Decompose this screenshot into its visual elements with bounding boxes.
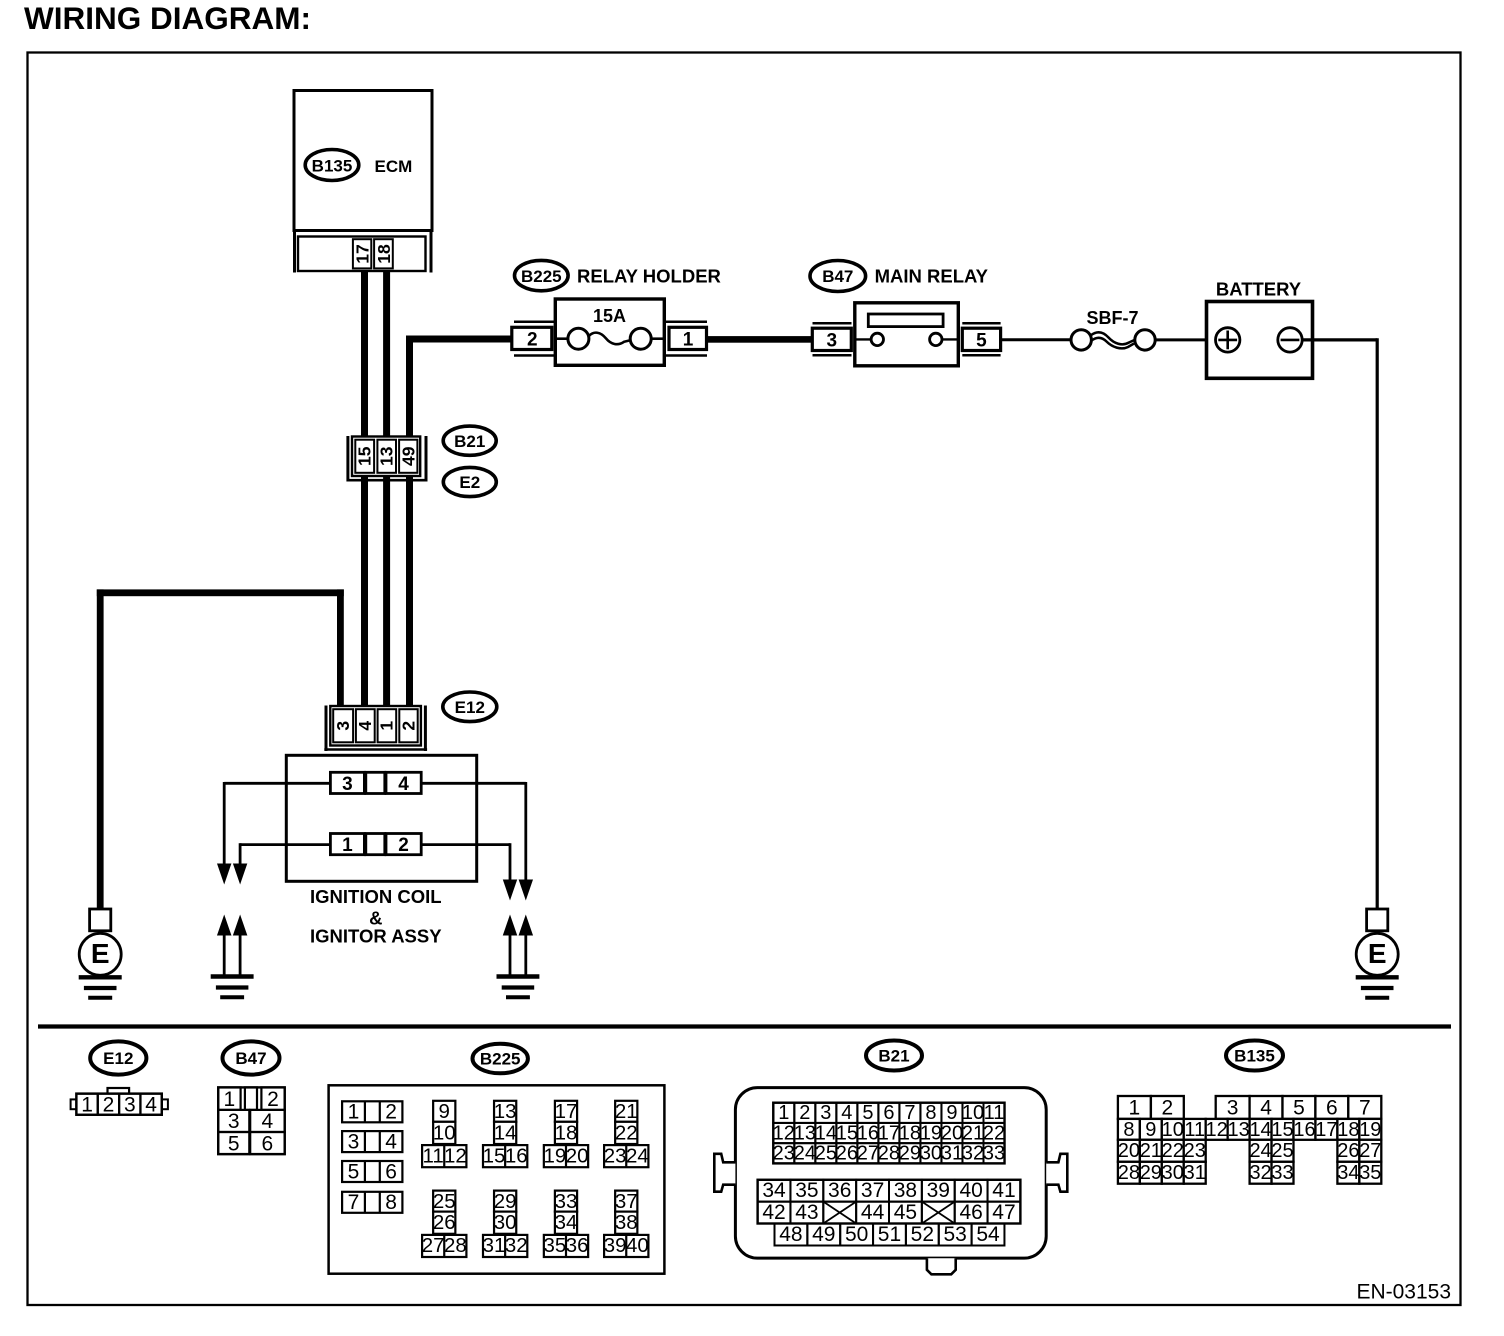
label IGNITION COIL & IGNITOR ASSY — [310, 886, 442, 947]
oval label E12 — [443, 692, 497, 722]
svg-text:30: 30 — [1162, 1162, 1184, 1184]
svg-text:48: 48 — [779, 1223, 802, 1246]
svg-text:34: 34 — [555, 1211, 578, 1234]
svg-text:25: 25 — [433, 1190, 456, 1213]
svg-text:15: 15 — [1271, 1119, 1293, 1141]
svg-text:1: 1 — [342, 835, 353, 856]
right spark gap down arrows — [503, 880, 533, 901]
connector E12 pinout — [71, 1088, 168, 1116]
svg-text:17: 17 — [353, 244, 373, 263]
connector B135 pinout — [1118, 1096, 1382, 1184]
svg-text:5: 5 — [862, 1102, 873, 1124]
left spark gap down arrows — [217, 864, 247, 885]
relay holder pin 1 — [664, 322, 707, 356]
svg-text:2: 2 — [103, 1093, 115, 1116]
svg-text:28: 28 — [878, 1143, 900, 1165]
svg-text:51: 51 — [878, 1223, 901, 1246]
svg-text:3: 3 — [827, 331, 838, 352]
wire battery minus to right ground — [1302, 338, 1377, 910]
svg-text:11: 11 — [423, 1144, 444, 1167]
svg-text:37: 37 — [615, 1190, 638, 1213]
svg-text:19: 19 — [1359, 1119, 1381, 1141]
svg-text:40: 40 — [959, 1179, 982, 1202]
svg-text:WIRING DIAGRAM:: WIRING DIAGRAM: — [24, 0, 311, 36]
connector E12 (pins 3 4 1 2) — [324, 706, 427, 752]
svg-text:2: 2 — [398, 721, 418, 731]
svg-text:4: 4 — [398, 774, 409, 795]
svg-text:1: 1 — [683, 330, 694, 351]
svg-text:3: 3 — [124, 1093, 136, 1116]
svg-text:IGNITOR ASSY: IGNITOR ASSY — [310, 926, 442, 947]
svg-text:2: 2 — [385, 1101, 397, 1124]
svg-text:15: 15 — [355, 446, 375, 466]
svg-text:15A: 15A — [593, 306, 626, 326]
svg-text:32: 32 — [505, 1234, 528, 1257]
svg-text:27: 27 — [1359, 1140, 1381, 1162]
svg-text:6: 6 — [262, 1132, 274, 1155]
svg-text:30: 30 — [494, 1211, 517, 1234]
battery — [1207, 279, 1313, 379]
svg-text:28: 28 — [1118, 1162, 1140, 1184]
oval label B21 — [443, 426, 496, 455]
svg-text:8: 8 — [1123, 1119, 1134, 1141]
svg-text:11: 11 — [1184, 1119, 1205, 1141]
svg-text:4: 4 — [355, 721, 375, 731]
svg-text:19: 19 — [920, 1122, 942, 1144]
svg-text:3: 3 — [333, 721, 353, 731]
svg-text:21: 21 — [962, 1122, 984, 1144]
svg-text:38: 38 — [894, 1179, 917, 1202]
svg-text:B225: B225 — [480, 1050, 521, 1069]
wire SBF-7 to battery plus — [1155, 338, 1216, 341]
svg-text:21: 21 — [1140, 1140, 1162, 1162]
svg-text:BATTERY: BATTERY — [1216, 279, 1302, 300]
svg-text:18: 18 — [1337, 1119, 1359, 1141]
svg-text:3: 3 — [342, 774, 353, 795]
oval label E2 — [443, 467, 496, 496]
svg-text:B225: B225 — [521, 267, 562, 286]
svg-text:7: 7 — [904, 1102, 915, 1124]
wire ECM pin17 to B21 pin15 to E12 pin4 — [361, 272, 368, 708]
wire left ground run to E12 pin3 — [97, 589, 344, 909]
left spark gap up arrows — [217, 915, 247, 977]
right spark gap up arrows — [503, 915, 533, 977]
svg-text:13: 13 — [1228, 1119, 1250, 1141]
svg-text:18: 18 — [899, 1122, 921, 1144]
svg-text:26: 26 — [836, 1143, 858, 1165]
svg-text:12: 12 — [444, 1144, 467, 1167]
svg-text:7: 7 — [1359, 1096, 1371, 1119]
left ground E — [79, 909, 122, 998]
svg-text:E12: E12 — [455, 698, 485, 717]
main relay pin 5 — [962, 323, 1000, 355]
svg-text:23: 23 — [773, 1143, 795, 1165]
svg-text:2: 2 — [799, 1102, 810, 1124]
svg-text:39: 39 — [604, 1234, 627, 1257]
oval label B47 (pinout) — [223, 1041, 280, 1074]
svg-text:1: 1 — [224, 1088, 236, 1111]
wire relay holder pin1 to main relay pin3 — [707, 336, 813, 343]
svg-text:9: 9 — [946, 1102, 957, 1124]
svg-text:33: 33 — [555, 1190, 578, 1213]
svg-text:21: 21 — [615, 1100, 638, 1123]
wire ignition pin2 to right spark output — [421, 843, 510, 880]
svg-text:5: 5 — [976, 331, 987, 352]
svg-text:46: 46 — [959, 1201, 982, 1224]
svg-text:14: 14 — [494, 1121, 517, 1144]
svg-text:17: 17 — [878, 1122, 900, 1144]
svg-text:6: 6 — [883, 1102, 894, 1124]
oval label E12 (pinout) — [90, 1041, 146, 1074]
svg-text:25: 25 — [1271, 1140, 1293, 1162]
svg-text:24: 24 — [626, 1144, 649, 1167]
svg-text:31: 31 — [483, 1234, 506, 1257]
B21 pin grid 34-54 — [758, 1179, 1021, 1246]
svg-text:13: 13 — [794, 1122, 816, 1144]
svg-text:2: 2 — [398, 835, 409, 856]
svg-text:14: 14 — [1249, 1119, 1271, 1141]
wire ignition pin1 to left spark output — [240, 843, 330, 864]
wire relay holder pin2 to B21 pin49 to E12 pin2 — [406, 336, 514, 708]
svg-text:22: 22 — [1162, 1140, 1184, 1162]
svg-text:31: 31 — [941, 1143, 963, 1165]
svg-text:3: 3 — [820, 1102, 831, 1124]
svg-text:28: 28 — [444, 1234, 467, 1257]
svg-text:41: 41 — [992, 1179, 1015, 1202]
connector B225 pinout — [329, 1085, 665, 1273]
svg-text:B21: B21 — [878, 1047, 909, 1066]
svg-text:4: 4 — [262, 1110, 274, 1133]
oval label B225 — [515, 260, 569, 290]
svg-text:25: 25 — [815, 1143, 837, 1165]
svg-text:24: 24 — [794, 1143, 816, 1165]
svg-text:49: 49 — [812, 1223, 835, 1246]
svg-text:4: 4 — [385, 1131, 397, 1154]
svg-text:6: 6 — [385, 1160, 397, 1183]
svg-text:1: 1 — [1129, 1096, 1141, 1119]
svg-text:4: 4 — [1260, 1096, 1272, 1119]
svg-text:19: 19 — [543, 1144, 566, 1167]
main relay pin 3 — [812, 323, 851, 355]
svg-text:ECM: ECM — [375, 157, 413, 176]
svg-text:2: 2 — [267, 1088, 279, 1111]
svg-text:E12: E12 — [103, 1049, 133, 1068]
main relay box — [855, 303, 959, 366]
svg-text:32: 32 — [962, 1143, 984, 1165]
svg-text:8: 8 — [925, 1102, 936, 1124]
svg-text:29: 29 — [899, 1143, 921, 1165]
svg-text:54: 54 — [976, 1223, 1000, 1246]
svg-text:10: 10 — [1162, 1119, 1184, 1141]
svg-text:1: 1 — [81, 1093, 93, 1116]
ECM box B135 — [294, 91, 432, 231]
svg-text:18: 18 — [374, 244, 394, 264]
svg-text:18: 18 — [555, 1121, 578, 1144]
label RELAY HOLDER — [577, 266, 721, 287]
svg-text:B21: B21 — [454, 432, 485, 451]
fusible link SBF-7 — [1071, 308, 1155, 350]
right spark ground — [497, 977, 540, 998]
svg-text:15: 15 — [836, 1122, 858, 1144]
svg-text:1: 1 — [348, 1101, 360, 1124]
svg-text:1: 1 — [778, 1102, 789, 1124]
svg-text:9: 9 — [1145, 1119, 1156, 1141]
svg-text:22: 22 — [983, 1122, 1005, 1144]
svg-text:1: 1 — [377, 721, 397, 731]
svg-text:B47: B47 — [822, 267, 853, 286]
svg-text:23: 23 — [604, 1144, 627, 1167]
svg-text:16: 16 — [857, 1122, 879, 1144]
svg-text:29: 29 — [1140, 1162, 1162, 1184]
svg-text:EN-03153: EN-03153 — [1356, 1281, 1451, 1304]
svg-text:E: E — [91, 938, 110, 969]
svg-text:16: 16 — [505, 1144, 528, 1167]
svg-text:13: 13 — [494, 1100, 517, 1123]
svg-text:3: 3 — [1227, 1096, 1239, 1119]
ignition coil pins 1 2 — [330, 834, 421, 857]
svg-text:40: 40 — [626, 1234, 649, 1257]
connector B21/E2 (pins 15 13 49) — [347, 436, 428, 482]
svg-text:B47: B47 — [235, 1049, 266, 1068]
svg-text:27: 27 — [422, 1234, 445, 1257]
svg-text:35: 35 — [795, 1179, 818, 1202]
svg-text:5: 5 — [1293, 1096, 1305, 1119]
relay holder fuse box 15A — [555, 299, 664, 365]
svg-text:26: 26 — [433, 1211, 456, 1234]
svg-text:31: 31 — [1184, 1162, 1206, 1184]
wire ignition pin4 to right spark output — [421, 782, 526, 880]
svg-text:29: 29 — [494, 1190, 517, 1213]
svg-text:12: 12 — [1206, 1119, 1228, 1141]
svg-text:33: 33 — [1271, 1162, 1293, 1184]
svg-text:33: 33 — [983, 1143, 1005, 1165]
drawing number EN-03153 — [1356, 1281, 1451, 1304]
svg-text:4: 4 — [841, 1102, 852, 1124]
svg-text:11: 11 — [984, 1102, 1005, 1124]
ECM connector (pins 17 18) — [295, 231, 432, 273]
oval label B225 (pinout) — [473, 1044, 528, 1074]
svg-text:20: 20 — [566, 1144, 589, 1167]
label MAIN RELAY — [875, 266, 989, 287]
svg-text:15: 15 — [483, 1144, 506, 1167]
svg-text:14: 14 — [815, 1122, 837, 1144]
wire ECM pin18 to B21 pin13 to E12 pin1 — [383, 272, 390, 708]
svg-text:35: 35 — [543, 1234, 566, 1257]
svg-text:6: 6 — [1326, 1096, 1338, 1119]
svg-text:3: 3 — [228, 1110, 240, 1133]
svg-text:43: 43 — [795, 1201, 818, 1224]
svg-text:20: 20 — [1118, 1140, 1140, 1162]
svg-text:7: 7 — [348, 1191, 360, 1214]
svg-text:16: 16 — [1293, 1119, 1315, 1141]
wire main relay pin5 to SBF-7 — [1001, 338, 1071, 341]
svg-text:10: 10 — [433, 1121, 456, 1144]
ignition coil box — [286, 755, 476, 881]
svg-text:MAIN RELAY: MAIN RELAY — [875, 266, 989, 287]
svg-text:12: 12 — [773, 1122, 795, 1144]
svg-text:E2: E2 — [459, 473, 480, 492]
svg-text:SBF-7: SBF-7 — [1086, 308, 1138, 328]
right ground E — [1356, 909, 1399, 998]
svg-text:4: 4 — [145, 1093, 157, 1116]
svg-text:17: 17 — [1315, 1119, 1337, 1141]
svg-text:34: 34 — [762, 1179, 786, 1202]
svg-text:20: 20 — [941, 1122, 963, 1144]
svg-text:5: 5 — [228, 1132, 240, 1155]
svg-text:34: 34 — [1337, 1162, 1359, 1184]
left spark ground — [211, 977, 254, 998]
oval label B21 (pinout) — [866, 1041, 922, 1071]
separator line — [38, 1024, 1451, 1028]
svg-text:39: 39 — [927, 1179, 950, 1202]
connector B21 pinout body — [714, 1088, 1067, 1275]
svg-text:17: 17 — [555, 1100, 578, 1123]
wire ignition pin3 to left spark output — [224, 782, 330, 864]
B21 pin grid 1-33 — [773, 1102, 1005, 1164]
svg-text:IGNITION COIL: IGNITION COIL — [310, 886, 442, 907]
connector B47 pinout — [218, 1087, 285, 1155]
title — [24, 0, 311, 36]
svg-text:53: 53 — [943, 1223, 966, 1246]
svg-text:45: 45 — [894, 1201, 917, 1224]
svg-text:27: 27 — [857, 1143, 879, 1165]
svg-text:44: 44 — [861, 1201, 885, 1224]
svg-text:37: 37 — [861, 1179, 884, 1202]
svg-text:5: 5 — [348, 1160, 360, 1183]
svg-text:RELAY HOLDER: RELAY HOLDER — [577, 266, 721, 287]
svg-text:42: 42 — [762, 1201, 785, 1224]
svg-text:35: 35 — [1359, 1162, 1381, 1184]
svg-text:3: 3 — [348, 1131, 360, 1154]
svg-text:38: 38 — [615, 1211, 638, 1234]
svg-text:49: 49 — [398, 446, 418, 466]
relay holder pin 2 — [512, 322, 556, 356]
oval label B47 — [810, 261, 866, 292]
svg-text:47: 47 — [992, 1201, 1015, 1224]
ignition coil pins 3 4 — [330, 772, 421, 795]
svg-text:8: 8 — [385, 1191, 397, 1214]
svg-text:52: 52 — [911, 1223, 934, 1246]
svg-text:24: 24 — [1249, 1140, 1271, 1162]
svg-text:2: 2 — [527, 330, 538, 351]
svg-text:32: 32 — [1249, 1162, 1271, 1184]
svg-text:B135: B135 — [1234, 1047, 1275, 1066]
svg-text:36: 36 — [566, 1234, 589, 1257]
svg-text:30: 30 — [920, 1143, 942, 1165]
svg-text:9: 9 — [439, 1100, 450, 1123]
oval label B135 (pinout) — [1226, 1041, 1283, 1071]
svg-text:26: 26 — [1337, 1140, 1359, 1162]
svg-text:50: 50 — [845, 1223, 868, 1246]
svg-text:E: E — [1368, 938, 1387, 969]
svg-text:10: 10 — [962, 1102, 984, 1124]
svg-text:22: 22 — [615, 1121, 638, 1144]
svg-text:13: 13 — [377, 446, 397, 466]
svg-text:36: 36 — [828, 1179, 851, 1202]
svg-text:B135: B135 — [312, 157, 353, 176]
svg-text:2: 2 — [1162, 1096, 1174, 1119]
svg-text:23: 23 — [1184, 1140, 1206, 1162]
